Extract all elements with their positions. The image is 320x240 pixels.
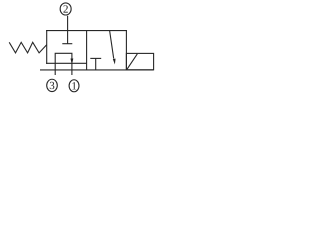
flow arrowhead [71,59,74,66]
port 3 blocked bar [90,57,101,59]
valve envelope right edge [125,30,127,70]
port label 3 digit [50,82,55,89]
spring [9,42,47,53]
solenoid box [126,53,153,69]
port label 3 circle [47,79,58,91]
right diagonal arrowhead [113,59,116,65]
port label 1 circle [69,80,79,92]
port 2 blocked bar [62,43,72,45]
baseline wire [40,69,154,71]
center divider [86,30,88,70]
port 1 stub wire [71,63,73,75]
right position flow diagonal [110,31,114,59]
port 3 blocked stem [95,58,97,69]
port label 2 digit [63,5,67,12]
solenoid slash [127,54,137,70]
port 2 wire [67,16,69,44]
port label 2 circle [60,3,71,15]
valve envelope left edge [46,30,48,64]
left position bottom line [46,62,87,64]
valve envelope top edge [46,30,127,32]
flow path 3 to 1 [55,53,72,75]
port label 1 digit [72,82,76,89]
